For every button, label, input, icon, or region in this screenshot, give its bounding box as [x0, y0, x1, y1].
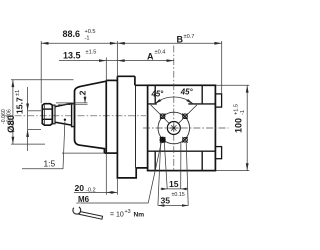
shaft center star	[170, 124, 178, 132]
horizontal centerline	[143, 127, 229, 129]
svg-text:45°: 45°	[180, 87, 194, 96]
mounting bell (conical flange)	[75, 81, 107, 153]
svg-text:B: B	[177, 35, 184, 45]
notes and dimension texts	[1, 29, 246, 219]
ext line body front face upper	[116, 41, 118, 76]
svg-text:±0.7: ±0.7	[184, 34, 195, 40]
reference lines for chamfer 2	[56, 102, 88, 104]
svg-text:+1.5: +1.5	[233, 104, 239, 115]
ext line at nut face	[40, 41, 42, 103]
dim 2 chamfer	[84, 96, 86, 103]
bolt circle	[158, 112, 190, 144]
dim 35 hole spacing	[158, 205, 188, 207]
washer	[53, 105, 55, 124]
svg-text:±1: ±1	[15, 90, 21, 96]
svg-text:+3: +3	[125, 209, 131, 215]
nut facet lines	[42, 108, 52, 110]
dim 20 shaft length	[74, 191, 117, 193]
ext line port face	[221, 41, 223, 94]
svg-text:15: 15	[169, 179, 179, 189]
45 degree radial top-left	[151, 105, 169, 123]
dim 100 right side	[246, 85, 248, 170]
gear body block	[117, 76, 136, 178]
svg-text:13.5: 13.5	[63, 50, 81, 60]
side view outline	[42, 76, 147, 178]
dim O80 left side	[12, 80, 14, 144]
ext line collar front lower	[105, 153, 107, 195]
flange face lower edge	[148, 150, 216, 152]
taper leader dot	[64, 119, 66, 121]
body/cover seam	[135, 85, 137, 168]
45 degree radial top-right	[179, 105, 197, 123]
end view outline	[143, 46, 229, 172]
upper port stub	[215, 94, 221, 107]
svg-text:±0.15: ±0.15	[172, 192, 185, 198]
shaft hex nut	[42, 104, 52, 126]
collar bottom extension line	[62, 152, 104, 154]
45 deg arc with arrows	[154, 97, 193, 104]
dim 15.7 taper gauge	[27, 87, 29, 151]
rear cover	[135, 85, 148, 168]
svg-text:±0.4: ±0.4	[155, 49, 166, 55]
svg-text:100: 100	[234, 118, 244, 133]
svg-text:20: 20	[75, 183, 85, 193]
vertical centerline	[173, 46, 175, 172]
corner boss lines horizontal / 45deg legs	[148, 103, 216, 105]
flange square	[148, 85, 216, 170]
svg-text:= 10: = 10	[110, 212, 124, 219]
svg-text:88.6: 88.6	[63, 29, 81, 39]
tapered shaft 1:5	[55, 103, 71, 125]
svg-text:1:5: 1:5	[44, 159, 56, 169]
lower port stub	[215, 147, 221, 159]
dim 15 hole offset	[161, 188, 188, 190]
leader lines from bottom holes	[158, 142, 161, 206]
side view shaft centerline	[2, 115, 146, 117]
shaft circle	[167, 122, 180, 135]
svg-text:-1: -1	[85, 36, 90, 42]
svg-text:-0.2: -0.2	[86, 187, 96, 193]
ext line body front face lower	[116, 178, 118, 195]
pilot collar O80	[106, 79, 117, 81]
svg-text:15.7: 15.7	[15, 97, 25, 114]
shaft shoulder ring	[72, 103, 75, 126]
svg-text:±1.5: ±1.5	[86, 49, 97, 55]
svg-text:-0.106: -0.106	[7, 109, 13, 124]
svg-text:Nm: Nm	[134, 212, 145, 219]
dim line 13.5 / A	[59, 60, 174, 62]
M6 thread hole top-left	[160, 113, 166, 119]
svg-text:-1: -1	[240, 110, 246, 115]
arrows on 88.6/B line	[41, 42, 222, 45]
text O80 -0.060 -0.106 rotated	[1, 109, 16, 133]
dimensions	[11, 41, 249, 207]
M6 thread hole bottom-left (marked)	[160, 137, 166, 143]
corner boss lines vertical	[155, 85, 202, 170]
svg-text:35: 35	[161, 196, 171, 206]
text 15.7 +-1 rotated	[15, 90, 25, 114]
svg-text:45°: 45°	[151, 89, 165, 98]
torque wrench symbol	[72, 204, 102, 219]
M6 thread hole top-right	[182, 113, 188, 119]
ext line collar front upper	[105, 58, 107, 81]
svg-text:A: A	[147, 52, 154, 62]
bell/collar seam	[105, 80, 107, 153]
text 100 +1.5 -1 rotated	[233, 104, 246, 133]
dim line 88.6 / B	[41, 42, 222, 44]
svg-text:2: 2	[78, 90, 88, 95]
M6 thread hole bottom-right	[182, 137, 188, 143]
nut chamfer line	[43, 104, 45, 124]
svg-text:+0.5: +0.5	[85, 29, 96, 35]
